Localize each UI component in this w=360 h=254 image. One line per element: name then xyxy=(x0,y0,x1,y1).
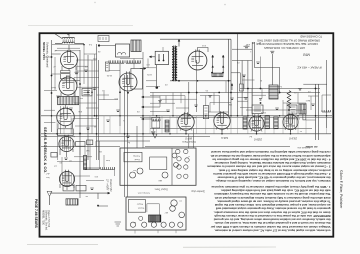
resistor R9 pair small xyxy=(105,62,109,71)
svg-text:Power: Power xyxy=(137,202,143,205)
capacitor symbols scattered xyxy=(84,69,88,71)
junction dots supply xyxy=(178,80,180,82)
wire interstage xyxy=(62,79,80,81)
resistor R16 vertical hatched xyxy=(274,117,278,129)
junction dots left xyxy=(51,56,53,58)
wire long under-row line y146.5 xyxy=(145,145,290,147)
svg-text:W-25: W-25 xyxy=(106,74,112,76)
svg-text:To align this receiver, procee: To align this receiver, proceed exactly … xyxy=(217,199,331,203)
resistor R8 box xyxy=(76,185,86,191)
svg-text:position, reduce attenuator se: position, reduce attenuator setting so a… xyxy=(218,168,330,172)
svg-text:Tuning cond.: Tuning cond. xyxy=(137,192,150,194)
wire x272 from cap to choke xyxy=(271,54,273,85)
svg-text:down so that the AVC action of: down so that the AVC action of the recei… xyxy=(213,210,330,214)
wire rail y146.5 xyxy=(41,146,120,148)
smudge top xyxy=(94,2,95,3)
IF transformer T2 can xyxy=(58,97,79,105)
resistor R3 box xyxy=(51,152,57,157)
svg-text:Voltages shown are measured fr: Voltages shown are measured from the soc… xyxy=(210,225,331,229)
resistor R7 box xyxy=(63,185,74,191)
svg-text:osc: osc xyxy=(179,200,182,202)
junction dots IF strip xyxy=(188,92,190,94)
tube socket circles in layout xyxy=(130,172,136,178)
svg-text:27° +450V: 27° +450V xyxy=(106,178,109,191)
wire long AVC rail with arrow xyxy=(50,192,108,194)
tube V1 RF amplifier xyxy=(61,52,78,69)
resistor R10 hatched horizontal xyxy=(212,73,223,77)
svg-text:6K7-G: 6K7-G xyxy=(185,137,192,140)
svg-text:~ IF PEAK 456: ~ IF PEAK 456 xyxy=(297,146,312,149)
resistor R5 box xyxy=(87,140,93,145)
tube V7 rectifier xyxy=(188,51,207,70)
wire dot terminal to oscillator box xyxy=(98,44,100,46)
resistor R6 vertical (hatched) xyxy=(84,156,87,170)
resistor R12 vertical xyxy=(203,106,208,119)
wire rails between buses xyxy=(232,48,252,50)
svg-text:Schematic, Continued: Schematic, Continued xyxy=(45,42,49,68)
svg-text:Speaker plug: Speaker plug xyxy=(191,190,205,192)
svg-text:6A8-G: 6A8-G xyxy=(221,136,228,139)
wire rail y141 xyxy=(96,140,150,142)
svg-text:Model 7154: Model 7154 xyxy=(109,179,112,192)
coil comb row 2 xyxy=(126,60,141,63)
svg-text:ANT. CONTROL CO. DATA PAGES: ANT. CONTROL CO. DATA PAGES xyxy=(264,46,305,50)
svg-text:osc: osc xyxy=(133,169,136,171)
wire top rail xyxy=(160,38,231,40)
wire rail y117.3 xyxy=(140,116,332,118)
svg-text:the chassis nor touch it and a: the chassis nor touch it and a grounded … xyxy=(214,221,330,225)
wire left bus vertical xyxy=(51,40,53,132)
resistor R14 box hatched xyxy=(299,104,306,114)
wire bottom rail of supply xyxy=(170,80,231,82)
tube V6 first detector xyxy=(119,73,137,91)
wire AC line with arrow xyxy=(152,56,156,58)
svg-text:Output Trans.: Output Trans. xyxy=(154,188,168,191)
coil L2 box xyxy=(82,89,92,96)
wire plug down to fuse dot xyxy=(156,65,158,86)
antenna symbol bottom-left xyxy=(47,191,52,196)
svg-text:Tuning: Tuning xyxy=(133,155,140,157)
wire to V3 xyxy=(65,105,67,109)
power transformer T4 primary winding xyxy=(172,47,174,81)
coil comb row 1 xyxy=(109,60,124,63)
wire HT center tap with arrow up xyxy=(178,41,180,47)
AC plug P1 box xyxy=(155,51,168,64)
switch S1 box xyxy=(66,199,78,205)
resistor R4 box xyxy=(76,142,85,147)
svg-text:v1: v1 xyxy=(188,155,190,157)
wire path from note area down xyxy=(255,42,280,93)
svg-text:Schematic, See Ind.: Schematic, See Ind. xyxy=(44,210,47,231)
svg-text:2M: 2M xyxy=(229,103,232,105)
svg-text:2 - Feed the signal through a: 2 - Feed the signal through a 200 mmfd c… xyxy=(213,172,331,176)
svg-text:SPEAKER FRAME OF ALL RECEIVERS: SPEAKER FRAME OF ALL RECEIVERS USING THI… xyxy=(257,38,320,42)
coil L4 xyxy=(101,167,115,169)
svg-text:25L6-G: 25L6-G xyxy=(289,137,298,140)
wire rail y110 right xyxy=(246,109,302,111)
svg-text:17 → 48: 17 → 48 xyxy=(252,41,261,43)
resistor R18 box below V3 xyxy=(58,129,74,136)
svg-text:PAGE 7-66 SEARS: PAGE 7-66 SEARS xyxy=(34,199,38,229)
junction dots scattered xyxy=(83,44,85,46)
ground stack left of layout xyxy=(115,222,122,226)
wire V5 pins xyxy=(60,184,74,190)
page fold line top-left xyxy=(28,24,133,26)
svg-text:6A8: 6A8 xyxy=(159,179,162,182)
chassis layout rear view box xyxy=(126,197,186,230)
svg-text:.5M: .5M xyxy=(86,149,90,151)
trimmer box top xyxy=(98,36,109,42)
svg-text:Output Trans: Output Trans xyxy=(181,140,196,143)
svg-text:CIRCUIT, SEE THE SERVICE CONDI: CIRCUIT, SEE THE SERVICE CONDITIONS NOTE… xyxy=(256,42,318,46)
capacitor C32 top right xyxy=(270,50,274,52)
wire bus x137 xyxy=(136,126,138,148)
tube V4 second detector (shaded) xyxy=(59,136,74,151)
wire mesh right verticals xyxy=(244,57,322,116)
tube V9 detector-AVC xyxy=(214,113,230,129)
schematic border frame xyxy=(40,33,334,237)
inner chassis outline xyxy=(150,157,167,170)
capacitor C31 electrolytic with arrow xyxy=(231,84,233,86)
svg-text:110V: 110V xyxy=(147,73,152,75)
page fold line bottom-middle xyxy=(183,246,276,248)
dial lamp lead 2 (arrow up) xyxy=(222,57,224,73)
tube V8 IF output xyxy=(178,114,194,130)
inner partition lines xyxy=(147,204,160,215)
coil L8 at right frame edge xyxy=(322,110,331,112)
resistor R15 vertical hatched xyxy=(265,116,269,129)
svg-text:MODEL 7150: MODEL 7150 xyxy=(42,210,45,226)
wire arrow left row 2 xyxy=(143,106,160,108)
svg-text:Mfrd: Mfrd xyxy=(303,53,310,57)
resistor R13 zigzag vertical xyxy=(287,91,291,109)
wire bus pair x96-98 xyxy=(96,44,98,160)
svg-text:det: det xyxy=(72,135,75,138)
wire bus pair far right xyxy=(315,84,317,140)
svg-text:IF PEAK ~ 455 KC: IF PEAK ~ 455 KC xyxy=(296,66,322,70)
wire arrow left row 1 xyxy=(143,96,160,98)
wire bus x248 xyxy=(247,61,249,116)
svg-text:25Z6: 25Z6 xyxy=(260,111,266,113)
junction dots middle-left xyxy=(119,91,121,93)
tuning condenser box in layout xyxy=(124,152,142,161)
resistor R19 vertical hatched xyxy=(243,117,247,129)
resistor R17 vertical xyxy=(303,110,306,120)
wire V2 pins xyxy=(61,75,75,97)
socket panel divider xyxy=(171,148,173,185)
coil L6 with core and ground xyxy=(152,119,160,121)
tube V2 oscillator-converter xyxy=(59,77,77,95)
page fold line bottom-left xyxy=(27,243,98,245)
svg-text:4 - Set the dial to 1500 KC an: 4 - Set the dial to 1500 KC and adjust t… xyxy=(211,157,330,161)
shield box right of V6 xyxy=(131,69,143,90)
svg-text:©John F. Rider, Publisher: ©John F. Rider, Publisher xyxy=(339,170,343,209)
wire arrow right of shield xyxy=(140,68,144,70)
resistor R11 hatched xyxy=(165,120,169,132)
svg-text:1 - With the gang fully closed: 1 - With the gang fully closed, adjust t… xyxy=(211,185,331,189)
wire to switch xyxy=(98,193,108,206)
ground symbol below L6 xyxy=(152,128,154,131)
wire bottom verticals xyxy=(57,116,327,134)
chassis layout top view box xyxy=(120,148,196,185)
wire bus x120 xyxy=(119,64,121,126)
wire arrow left row 3 xyxy=(143,118,152,120)
triangle symbol above layout xyxy=(153,134,157,138)
svg-text:1M: 1M xyxy=(99,150,102,152)
wire bus x252 xyxy=(251,42,253,116)
power transformer T4 core xyxy=(173,46,175,82)
svg-text:3 - Connect an output meter ac: 3 - Connect an output meter across the v… xyxy=(207,165,330,169)
resistor R2 box xyxy=(61,71,71,73)
wire long rail y133.8 xyxy=(41,133,331,135)
tube V11 rectifier-b (shaded) xyxy=(283,114,298,129)
svg-text:with the dial set at 600 KC; r: with the dial set at 600 KC; rock the ga… xyxy=(220,189,331,193)
svg-text:25Z6-G: 25Z6-G xyxy=(254,138,263,141)
wire mesh middle verticals xyxy=(134,47,226,116)
wire mesh right horizontals xyxy=(238,80,332,120)
svg-text:generator to heat up for sever: generator to heat up for several minutes… xyxy=(216,207,331,211)
svg-text:A-C: A-C xyxy=(45,172,50,175)
choke L7 vertical (hatched) xyxy=(269,85,278,99)
wire bus x237.5 xyxy=(237,34,239,116)
wire mesh left column verticals xyxy=(55,45,115,176)
IF can T6 box xyxy=(289,105,297,114)
svg-text:Cond.: Cond. xyxy=(134,158,140,160)
wire bus x80 xyxy=(79,50,81,198)
wire shielded pair to chassis xyxy=(124,75,126,197)
IF can T5 box xyxy=(252,105,263,114)
wire bus x88 xyxy=(87,55,89,160)
wire bend to filter cap xyxy=(231,73,240,84)
svg-text:maximum output, then adjust th: maximum output, then adjust the antenna … xyxy=(214,161,331,165)
svg-text:adjustments until no further i: adjustments until no further increase in… xyxy=(210,154,330,158)
tube socket pin stubs xyxy=(180,128,296,134)
wire rail y136.6 xyxy=(41,136,210,138)
power transformer T4 secondary winding xyxy=(175,47,177,81)
antenna coil T1 xyxy=(62,37,74,38)
svg-text:ant: ant xyxy=(133,221,136,224)
svg-text:25L6: 25L6 xyxy=(294,117,300,119)
svg-text:the switch, therefore use an i: the switch, therefore use an isolation t… xyxy=(213,218,330,222)
svg-text:Pages 7-53,7-54: Pages 7-53,7-54 xyxy=(47,210,49,228)
capacitor C1 xyxy=(75,71,79,73)
svg-text:volt meter, with no signal inp: volt meter, with no signal input, line a… xyxy=(214,228,331,232)
wire horizontal top right xyxy=(303,83,327,85)
capacitor C2 small xyxy=(244,97,248,99)
wire rail y92.5 xyxy=(150,92,320,94)
IF can T3 (hatched) xyxy=(131,40,141,52)
wire rectifier top loop xyxy=(198,48,209,53)
wire bus x143 xyxy=(142,52,144,148)
svg-text:an output meter, and a proper: an output meter, and a proper insulated … xyxy=(215,203,331,207)
power transformer box in layout xyxy=(128,200,145,213)
wire bus pair right of supply xyxy=(228,39,230,116)
svg-text:the antenna post, set the sign: the antenna post, set the signal generat… xyxy=(217,176,331,180)
wire stubs below layout xyxy=(135,230,176,234)
dial lamp lead 1 (arrow up) xyxy=(212,57,214,73)
wire mesh middle horizontals xyxy=(97,59,232,113)
coil L3 tone choke xyxy=(85,167,99,169)
wire verticals above tubes row xyxy=(188,82,190,114)
socket circles in rear layout xyxy=(171,200,177,206)
tube V10 output (shaded) xyxy=(249,116,264,131)
wire mesh left column horizontals xyxy=(44,45,104,181)
svg-text:Transf.: Transf. xyxy=(137,206,144,209)
resistor R1 box xyxy=(61,74,71,79)
wire V4 pins xyxy=(60,149,73,157)
svg-text:IMPORTANT: one side of the pow: IMPORTANT: one side of the power line is… xyxy=(214,214,330,218)
junction dots right xyxy=(247,88,249,90)
svg-text:trimmers, top and bottom, for: trimmers, top and bottom, for maximum ou… xyxy=(215,179,330,183)
svg-text:AVC: AVC xyxy=(305,99,310,102)
wire bus x242 xyxy=(241,61,243,116)
socket circles right panel xyxy=(176,149,180,153)
wire long rail y115.8 xyxy=(41,115,332,117)
tube V3 IF amplifier xyxy=(57,108,75,126)
svg-text:6K7: 6K7 xyxy=(165,211,168,213)
field coil dark box xyxy=(149,215,161,222)
svg-text:TO CHASSIS AND: TO CHASSIS AND xyxy=(300,35,322,39)
svg-text:mark when the gang condenser i: mark when the gang condenser is fully me… xyxy=(214,196,330,200)
wire V3 pins xyxy=(58,123,73,128)
oscillator coil box L5 xyxy=(116,44,130,57)
wire rail y88.5 right xyxy=(240,88,320,90)
svg-text:rock the gang condenser while: rock the gang condenser while adjusting … xyxy=(211,150,331,154)
wire V1 pins xyxy=(52,54,77,71)
svg-text:The dial pointer should be set: The dial pointer should be set to coinci… xyxy=(214,192,331,196)
tube V5 output (shaded) xyxy=(59,171,74,186)
capacitor C3 with dot xyxy=(259,98,262,100)
wire rail y127.5 xyxy=(150,128,312,130)
grid cap wire tube V1 xyxy=(68,45,70,51)
wire antenna lead-in xyxy=(55,34,84,44)
wire drops to socket panel xyxy=(188,134,190,148)
wire drops to tubes row xyxy=(186,129,291,134)
